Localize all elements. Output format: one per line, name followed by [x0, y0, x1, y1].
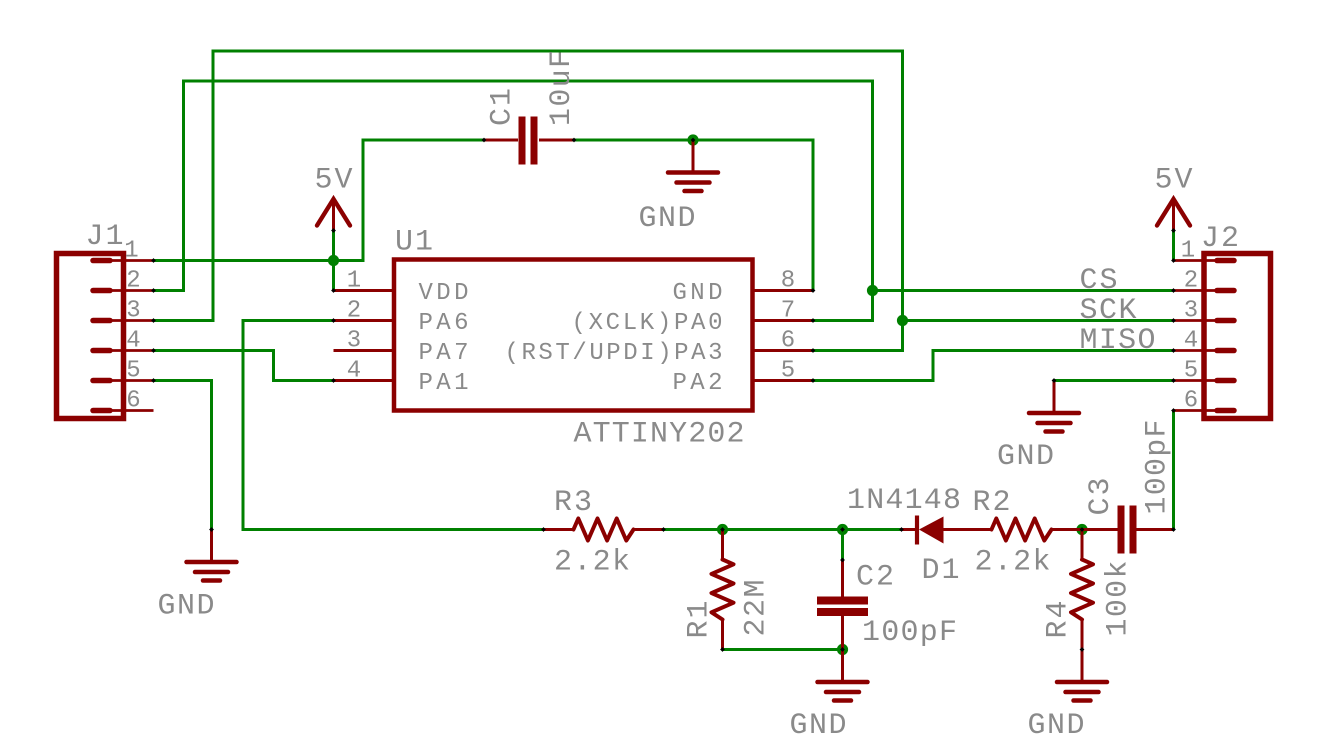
power 5V right — [1157, 199, 1190, 231]
wire J1.5 to GND — [154, 381, 212, 530]
label R1 — [683, 601, 717, 639]
svg-text:1: 1 — [1181, 238, 1195, 265]
node R2 C3 R4 junction dot — [1076, 524, 1087, 535]
value 22M — [740, 580, 774, 637]
resistor R2 — [962, 519, 1083, 541]
svg-text:(XCLK)PA0: (XCLK)PA0 — [572, 310, 723, 337]
svg-text:J2: J2 — [1201, 222, 1239, 256]
svg-text:2.2k: 2.2k — [554, 546, 630, 580]
diode D1 — [902, 516, 962, 545]
svg-text:J1: J1 — [86, 220, 124, 254]
svg-text:MISO: MISO — [1080, 324, 1156, 358]
svg-text:C3: C3 — [1084, 478, 1118, 516]
svg-text:PA6: PA6 — [419, 310, 469, 337]
svg-text:1N4148: 1N4148 — [847, 484, 961, 518]
svg-text:2: 2 — [347, 298, 361, 325]
ground GND bottom (C2) — [818, 650, 868, 701]
wire 5V junction down to U1 pin1 — [332, 261, 335, 291]
label C1 — [486, 88, 520, 126]
resistor R3 — [544, 519, 664, 541]
svg-text:10uF: 10uF — [545, 50, 579, 126]
wire 5V to J2.1 — [1172, 230, 1175, 261]
svg-text:3: 3 — [1184, 298, 1198, 325]
svg-text:5V: 5V — [1155, 164, 1193, 198]
connector J2 — [1174, 254, 1271, 419]
svg-text:4: 4 — [1184, 328, 1198, 355]
svg-text:22M: 22M — [740, 580, 774, 637]
wire PA6 U1 pin2 to R3 — [243, 321, 544, 530]
svg-text:GND: GND — [790, 709, 847, 743]
capacitor C3 — [1082, 506, 1174, 554]
svg-text:100pF: 100pF — [1141, 420, 1175, 515]
svg-text:4: 4 — [347, 358, 361, 385]
svg-text:2: 2 — [126, 268, 140, 295]
node 5V junction dot — [328, 255, 339, 266]
capacitor C2 — [817, 530, 868, 650]
svg-text:VDD: VDD — [419, 280, 469, 307]
svg-text:PA7: PA7 — [419, 340, 469, 367]
label C3 — [1084, 478, 1118, 516]
wire MISO U1 pin5 to J2.4 — [813, 351, 1174, 381]
pin connection diamonds — [151, 138, 1176, 652]
svg-text:8: 8 — [781, 268, 795, 295]
svg-text:5: 5 — [1184, 358, 1198, 385]
svg-text:U1: U1 — [395, 226, 433, 260]
svg-text:5: 5 — [126, 358, 140, 385]
capacitor C1 — [484, 117, 574, 165]
svg-text:5: 5 — [781, 358, 795, 385]
svg-text:PA2: PA2 — [673, 370, 723, 397]
svg-text:5V: 5V — [315, 164, 353, 198]
svg-text:7: 7 — [781, 298, 795, 325]
value 10uF — [545, 50, 579, 126]
wire C3 to J2.6 — [1172, 411, 1175, 530]
svg-text:GND: GND — [997, 440, 1054, 474]
node R1 top junction dot — [717, 524, 728, 535]
label R4 — [1042, 601, 1076, 639]
svg-text:GND: GND — [673, 280, 723, 307]
node C2 top junction dot — [837, 524, 848, 535]
svg-text:PA1: PA1 — [419, 370, 469, 397]
svg-text:SCK: SCK — [1080, 294, 1137, 328]
resistor R4 — [1071, 530, 1093, 650]
wire PA1 J1.4 to U1 pin4 — [154, 351, 334, 381]
svg-text:GND: GND — [1028, 709, 1085, 743]
svg-text:3: 3 — [126, 298, 140, 325]
node SCK junction dot — [897, 315, 908, 326]
svg-text:1: 1 — [124, 238, 138, 265]
ground GND right (J2.5) — [1029, 381, 1079, 432]
wire GND to J2.5 — [1054, 379, 1174, 382]
ground GND left (J1.5) — [187, 530, 237, 581]
svg-text:2.2k: 2.2k — [975, 546, 1051, 580]
wire 5V J1.1 to C1 left — [154, 140, 485, 261]
svg-text:2: 2 — [1184, 268, 1198, 295]
svg-text:3: 3 — [347, 328, 361, 355]
svg-text:GND: GND — [639, 202, 696, 236]
value 100k — [1102, 561, 1136, 637]
wire SCK J1.3 to U1 pin6 — [154, 51, 903, 351]
resistor R1 — [712, 530, 734, 650]
svg-text:D1: D1 — [922, 554, 960, 588]
wire R1 bottom to C2 bottom — [723, 648, 843, 651]
wire SCK junction to J2.3 — [903, 319, 1174, 322]
node CS junction dot — [867, 285, 878, 296]
node C2 bottom junction dot — [837, 644, 848, 655]
ground GND bottom (R4) — [1057, 650, 1107, 701]
ground GND top (C1) — [668, 140, 718, 191]
svg-text:C2: C2 — [856, 561, 894, 595]
svg-text:CS: CS — [1080, 264, 1118, 298]
svg-text:100pF: 100pF — [862, 616, 957, 650]
wire 5V junction up to arrow — [332, 230, 335, 261]
IC U1 ATTINY202 — [334, 260, 814, 411]
wire GND C1 right to U1 pin8 — [574, 140, 813, 291]
wire CS J1.2 to U1 pin7 — [154, 81, 873, 321]
svg-text:C1: C1 — [486, 88, 520, 126]
svg-text:R1: R1 — [683, 601, 717, 639]
wire R3 to D1 — [664, 528, 902, 531]
power 5V left — [317, 199, 350, 231]
svg-text:6: 6 — [1184, 388, 1198, 415]
svg-text:1: 1 — [347, 268, 361, 295]
svg-text:6: 6 — [781, 328, 795, 355]
svg-text:GND: GND — [158, 590, 215, 624]
svg-text:6: 6 — [126, 388, 140, 415]
wire CS junction to J2.2 — [873, 289, 1174, 292]
svg-text:(RST/UPDI)PA3: (RST/UPDI)PA3 — [505, 340, 723, 367]
svg-text:ATTINY202: ATTINY202 — [574, 418, 745, 452]
node GND junction dot — [687, 134, 698, 145]
green lead C2 top — [841, 530, 844, 561]
svg-text:R4: R4 — [1042, 601, 1076, 639]
svg-text:4: 4 — [126, 328, 140, 355]
connector J1 — [57, 254, 154, 419]
svg-text:100k: 100k — [1102, 561, 1136, 637]
value 100pF C3 — [1141, 420, 1175, 515]
svg-text:R2: R2 — [973, 486, 1011, 520]
svg-text:R3: R3 — [554, 486, 592, 520]
